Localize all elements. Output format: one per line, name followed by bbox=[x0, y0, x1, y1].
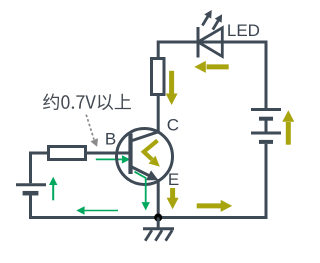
svg-text:LED: LED bbox=[227, 21, 260, 40]
svg-text:B: B bbox=[105, 129, 116, 148]
svg-text:C: C bbox=[167, 116, 179, 135]
svg-text:E: E bbox=[168, 170, 179, 189]
